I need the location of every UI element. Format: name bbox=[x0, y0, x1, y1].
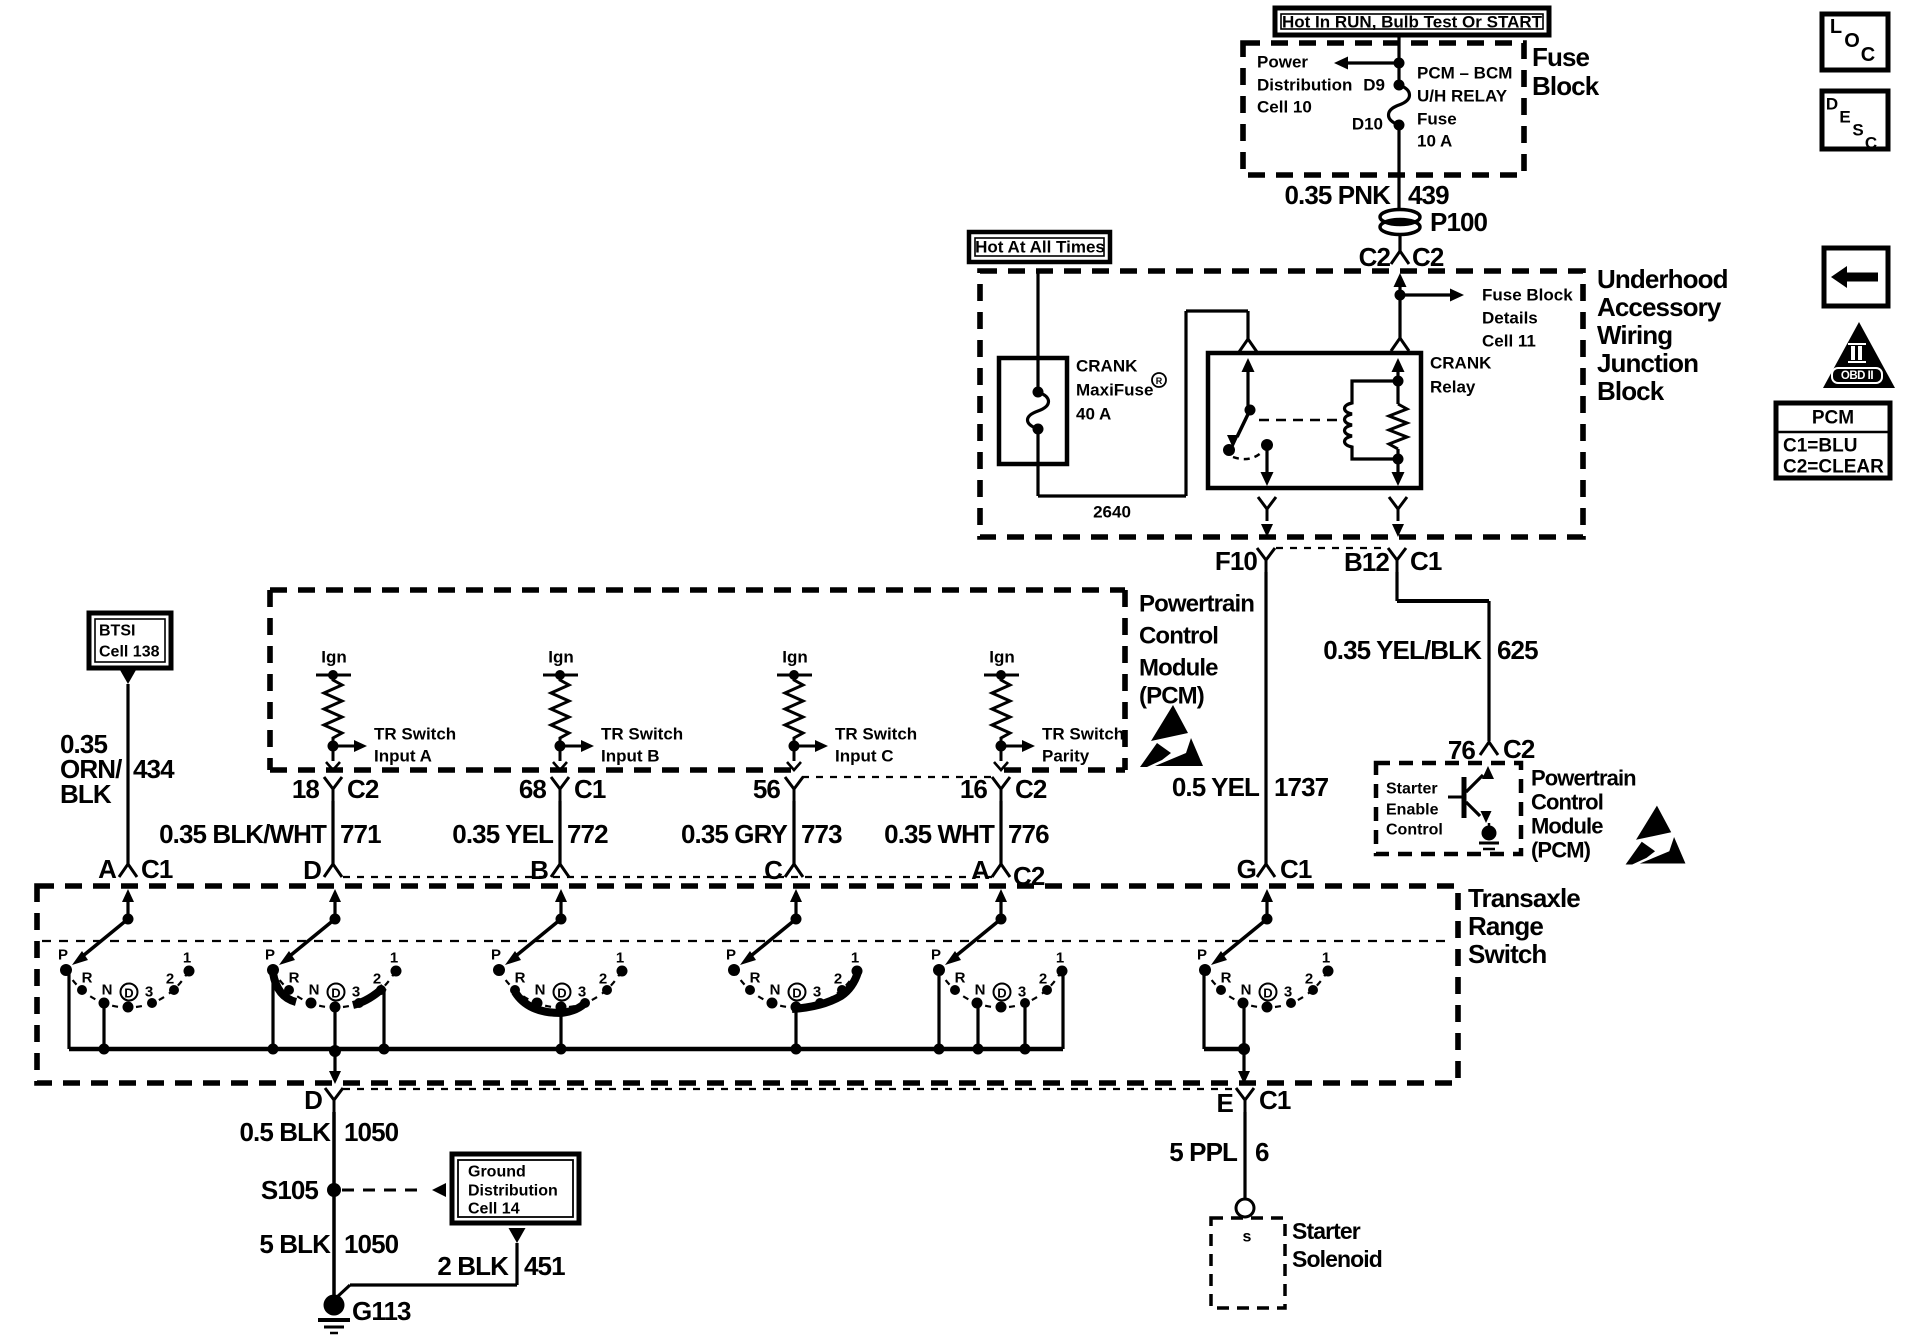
svg-text:2: 2 bbox=[834, 971, 842, 988]
svg-text:Details: Details bbox=[1482, 309, 1538, 328]
wire 776 0.35 WHT bbox=[999, 801, 1002, 864]
wire 772 0.35 YEL bbox=[558, 801, 561, 864]
switch S2 (input A) contact arc bbox=[273, 970, 396, 1008]
label Transaxle Range Switch bbox=[1468, 883, 1580, 969]
svg-text:Control: Control bbox=[1386, 822, 1443, 839]
svg-text:U/H RELAY: U/H RELAY bbox=[1417, 87, 1508, 106]
svg-text:0.35 GRY: 0.35 GRY bbox=[681, 819, 788, 849]
svg-text:P: P bbox=[265, 947, 275, 964]
svg-text:Ign: Ign bbox=[548, 648, 574, 667]
switch S3 (input B) position labels bbox=[491, 947, 624, 1001]
svg-text:1: 1 bbox=[1056, 950, 1064, 967]
svg-text:(PCM): (PCM) bbox=[1139, 683, 1204, 710]
svg-text:E: E bbox=[1839, 108, 1850, 127]
svg-text:0.35 PNK: 0.35 PNK bbox=[1284, 180, 1391, 210]
ESD symbol (PCM right) bbox=[1626, 806, 1686, 865]
title box "Hot At All Times" bbox=[969, 232, 1110, 262]
svg-text:Input A: Input A bbox=[374, 747, 432, 766]
starter solenoid dashed box bbox=[1211, 1218, 1285, 1308]
svg-text:Cell 10: Cell 10 bbox=[1257, 98, 1312, 117]
label 0.35 YEL 772 bbox=[452, 819, 608, 849]
switch S6 (starter) input arrow bbox=[1261, 889, 1273, 919]
switch S4 (input C) contact arc bbox=[734, 970, 857, 1008]
legend OBD II triangle bbox=[1823, 322, 1895, 388]
svg-text:Powertrain: Powertrain bbox=[1531, 766, 1636, 791]
svg-text:N: N bbox=[1241, 982, 1252, 999]
svg-text:B: B bbox=[530, 855, 548, 885]
node TR Switch B bbox=[555, 740, 595, 752]
svg-text:3: 3 bbox=[578, 984, 586, 1001]
legend back-arrow box bbox=[1824, 248, 1888, 306]
switch S1 (BTSI input) position labels bbox=[58, 947, 191, 1001]
svg-text:2: 2 bbox=[1305, 971, 1313, 988]
svg-text:CRANK: CRANK bbox=[1430, 354, 1492, 373]
wire 451 2 BLK bbox=[336, 1228, 526, 1298]
switch S2 (input A) closed contact P-R bbox=[273, 973, 296, 1002]
switch S2 (input A) wire P to bus bbox=[271, 970, 274, 1049]
connector line D-E (C1 face) bbox=[343, 1088, 1235, 1090]
svg-text:771: 771 bbox=[340, 819, 381, 849]
svg-text:BLK: BLK bbox=[60, 779, 112, 809]
terminal 76 C2 bbox=[1448, 734, 1535, 765]
svg-text:451: 451 bbox=[524, 1251, 565, 1281]
svg-text:L: L bbox=[1830, 16, 1842, 38]
wire 1737 YEL from PCM F10 bbox=[1264, 572, 1267, 864]
svg-text:G: G bbox=[1237, 854, 1256, 884]
svg-text:1: 1 bbox=[390, 950, 398, 967]
switch S5 (parity) contacts bbox=[933, 964, 1068, 1013]
label 0.35 YEL/BLK 625 bbox=[1323, 635, 1538, 665]
Ign pull-up rail bbox=[316, 648, 351, 681]
svg-text:2640: 2640 bbox=[1093, 503, 1131, 522]
switch S5 (parity) input arrow bbox=[995, 889, 1007, 919]
svg-text:D: D bbox=[1826, 95, 1838, 114]
resistor TR Switch B pull-up bbox=[551, 675, 569, 742]
label 5 PPL 6 bbox=[1169, 1137, 1269, 1167]
svg-text:0.35 WHT: 0.35 WHT bbox=[884, 819, 995, 849]
switch S6 (starter) wire P to bus bbox=[1202, 970, 1205, 1049]
svg-text:0.35 BLK/WHT: 0.35 BLK/WHT bbox=[159, 819, 327, 849]
switch S5 (parity) wire 1 to bus bbox=[1061, 971, 1064, 1049]
svg-text:D: D bbox=[124, 986, 133, 1001]
svg-text:Range: Range bbox=[1468, 911, 1543, 941]
svg-text:3: 3 bbox=[813, 984, 821, 1001]
svg-text:C2: C2 bbox=[1412, 242, 1444, 272]
svg-text:D: D bbox=[331, 986, 340, 1001]
wire 771 0.35 BLK/WHT bbox=[331, 801, 334, 864]
svg-text:A: A bbox=[971, 855, 990, 885]
node TR Switch C bbox=[789, 740, 829, 752]
svg-text:1: 1 bbox=[851, 950, 859, 967]
wire 625 YEL/BLK from B12 bbox=[1397, 572, 1489, 741]
wire 1050 BLK bbox=[332, 1112, 336, 1297]
svg-text:D: D bbox=[303, 855, 321, 885]
switch S2 (input A) closed contact 3-2 bbox=[353, 987, 384, 1005]
svg-text:BTSI: BTSI bbox=[99, 623, 135, 640]
svg-text:B12: B12 bbox=[1344, 547, 1389, 577]
svg-text:N: N bbox=[770, 982, 781, 999]
label Starter Solenoid bbox=[1292, 1218, 1382, 1272]
ESD symbol (PCM) bbox=[1140, 705, 1203, 767]
switch common bus bbox=[69, 1047, 1063, 1052]
label TR Switch Parity bbox=[1042, 725, 1124, 766]
label TR Switch Input C bbox=[835, 725, 917, 766]
svg-text:N: N bbox=[309, 982, 320, 999]
switch S4 (input C) arm bbox=[740, 914, 802, 966]
wire to PCM pin bbox=[326, 746, 340, 770]
svg-text:Ground: Ground bbox=[468, 1164, 526, 1181]
svg-text:s: s bbox=[1243, 1229, 1252, 1246]
wire to PCM pin bbox=[553, 746, 567, 770]
svg-text:76: 76 bbox=[1448, 735, 1476, 765]
svg-text:2: 2 bbox=[373, 971, 381, 988]
resistor TR Switch A pull-up bbox=[324, 675, 342, 742]
label 0.35 ORN/BLK 434 bbox=[60, 729, 175, 809]
svg-text:Distribution: Distribution bbox=[1257, 76, 1352, 95]
svg-text:E: E bbox=[1217, 1088, 1234, 1118]
terminal B12 C1 bbox=[1344, 546, 1442, 577]
svg-text:Fuse: Fuse bbox=[1532, 42, 1590, 72]
label CRANK Relay bbox=[1430, 354, 1492, 397]
terminal G C1 bbox=[1237, 854, 1312, 884]
switch S3 (input B) contacts bbox=[493, 964, 628, 1013]
svg-text:3: 3 bbox=[145, 984, 153, 1001]
svg-text:R: R bbox=[750, 970, 761, 987]
svg-text:TR Switch: TR Switch bbox=[374, 725, 456, 744]
relay output connectors bbox=[1258, 497, 1407, 537]
relay NC dashed arc bbox=[1233, 452, 1262, 459]
switch S6 (starter) contacts bbox=[1199, 964, 1334, 1013]
svg-text:Power: Power bbox=[1257, 53, 1308, 72]
switch S1 (BTSI input) contact arc bbox=[66, 970, 189, 1008]
svg-text:Fuse Block: Fuse Block bbox=[1482, 286, 1573, 305]
svg-text:Cell 138: Cell 138 bbox=[99, 644, 160, 661]
fuse block dashed box bbox=[1243, 43, 1524, 175]
svg-text:Starter: Starter bbox=[1386, 781, 1438, 798]
terminal A C1 bbox=[98, 854, 173, 884]
svg-text:6: 6 bbox=[1255, 1137, 1269, 1167]
label 0.35 PNK 439 bbox=[1284, 180, 1449, 210]
svg-text:434: 434 bbox=[133, 754, 175, 784]
svg-text:68: 68 bbox=[519, 774, 547, 804]
legend PCM connector colors box bbox=[1776, 403, 1890, 478]
label 0.35 GRY 773 bbox=[681, 819, 842, 849]
wire 773 0.35 GRY bbox=[792, 801, 795, 864]
svg-text:40 A: 40 A bbox=[1076, 405, 1111, 424]
svg-text:2: 2 bbox=[599, 971, 607, 988]
node E output bbox=[1238, 1043, 1250, 1084]
pin 56 bbox=[753, 774, 803, 804]
svg-text:Ign: Ign bbox=[321, 648, 347, 667]
switch S6 (starter) wire N to bus bbox=[1242, 1007, 1245, 1049]
svg-text:Wiring: Wiring bbox=[1597, 320, 1672, 350]
svg-text:Cell 14: Cell 14 bbox=[468, 1201, 520, 1218]
svg-text:D: D bbox=[997, 986, 1006, 1001]
switch S1 (BTSI input) wire P to bus bbox=[67, 970, 70, 1049]
pin D10 bbox=[1352, 115, 1383, 134]
svg-text:C2: C2 bbox=[1015, 774, 1047, 804]
connector line D-A (C2 face) bbox=[343, 876, 992, 878]
svg-text:C1: C1 bbox=[574, 774, 606, 804]
switch S2 (input A) arm bbox=[279, 914, 341, 966]
wire 6 PPL bbox=[1243, 1112, 1246, 1198]
switch S1 (BTSI input) contacts bbox=[60, 964, 195, 1013]
svg-text:3: 3 bbox=[1018, 984, 1026, 1001]
wire hot-at-all-times to maxifuse bbox=[1036, 271, 1039, 392]
node TR Switch A bbox=[328, 740, 368, 752]
switch S1 (BTSI input) wire N to bus bbox=[102, 1003, 105, 1049]
svg-text:C: C bbox=[1861, 44, 1875, 66]
svg-text:773: 773 bbox=[801, 819, 842, 849]
svg-text:D10: D10 bbox=[1352, 115, 1383, 134]
svg-text:Module: Module bbox=[1531, 814, 1603, 839]
svg-text:R: R bbox=[515, 970, 526, 987]
ground distribution cell 14 box bbox=[452, 1154, 579, 1223]
transistor Q starter enable bbox=[1448, 766, 1494, 826]
pin D9 bbox=[1363, 76, 1385, 95]
svg-text:P100: P100 bbox=[1430, 207, 1488, 237]
switch S4 (input C) closed contact D-1 bbox=[792, 972, 858, 1009]
svg-text:Starter: Starter bbox=[1292, 1218, 1361, 1244]
svg-text:10 A: 10 A bbox=[1417, 132, 1452, 151]
switch S6 (starter) arm bbox=[1211, 914, 1273, 966]
terminal D bbox=[303, 855, 342, 885]
svg-text:0.35 YEL: 0.35 YEL bbox=[452, 819, 554, 849]
svg-text:Ign: Ign bbox=[989, 648, 1015, 667]
relay coil bbox=[1345, 381, 1399, 459]
PCM dashed box bbox=[270, 590, 1125, 770]
svg-text:Enable: Enable bbox=[1386, 802, 1439, 819]
svg-text:N: N bbox=[102, 982, 113, 999]
svg-text:D: D bbox=[1263, 986, 1272, 1001]
switch S1 (BTSI input) arm bbox=[72, 914, 134, 966]
svg-text:Input B: Input B bbox=[601, 747, 660, 766]
BTSI Cell 138 box bbox=[89, 613, 171, 668]
svg-text:C1: C1 bbox=[1280, 854, 1312, 884]
svg-text:Fuse: Fuse bbox=[1417, 110, 1457, 129]
relay resistor bbox=[1389, 358, 1407, 486]
CRANK MaxiFuse 40A box bbox=[999, 358, 1067, 464]
Ign pull-up rail bbox=[984, 648, 1019, 681]
svg-text:C: C bbox=[764, 855, 783, 885]
svg-text:Block: Block bbox=[1532, 71, 1600, 101]
svg-text:G113: G113 bbox=[352, 1296, 411, 1326]
label 2 BLK 451 bbox=[437, 1251, 565, 1281]
Ign pull-up rail bbox=[543, 648, 578, 681]
switch S4 (input C) input arrow bbox=[790, 889, 802, 919]
connector C2/C2 bbox=[1359, 234, 1444, 272]
svg-text:C1: C1 bbox=[1410, 546, 1442, 576]
dashed reference wire to ground distribution bbox=[342, 1183, 446, 1197]
svg-text:R: R bbox=[955, 970, 966, 987]
relay common terminal bbox=[1261, 439, 1274, 486]
svg-text:Hot At All Times: Hot At All Times bbox=[975, 238, 1105, 257]
node: power distribution branch bbox=[1334, 57, 1405, 70]
svg-text:R: R bbox=[289, 970, 300, 987]
fuse element CRANK MaxiFuse bbox=[1028, 387, 1049, 435]
switch S4 (input C) contacts bbox=[728, 964, 863, 1013]
svg-text:Control: Control bbox=[1531, 790, 1603, 815]
switch S5 (parity) wire P to bus bbox=[937, 970, 940, 1049]
svg-text:Module: Module bbox=[1139, 655, 1218, 682]
terminal ring S bbox=[1236, 1199, 1254, 1217]
label 0.5 YEL 1737 bbox=[1172, 772, 1329, 802]
svg-text:PCM – BCM: PCM – BCM bbox=[1417, 64, 1512, 83]
svg-text:R: R bbox=[82, 970, 93, 987]
label 0.5 BLK 1050 bbox=[239, 1117, 398, 1147]
starter enable control dashed box bbox=[1376, 763, 1521, 854]
svg-text:Junction: Junction bbox=[1597, 348, 1698, 378]
fuse PCM-BCM U/H RELAY 10A (D9-D10) bbox=[1389, 80, 1410, 131]
svg-text:18: 18 bbox=[292, 774, 320, 804]
svg-text:2: 2 bbox=[1039, 971, 1047, 988]
svg-text:Relay: Relay bbox=[1430, 378, 1476, 397]
switch S2 (input A) input arrow bbox=[329, 889, 341, 919]
transistor emitter ground bbox=[1479, 826, 1499, 850]
grommet P100 bbox=[1380, 207, 1488, 237]
wire from title into fuse block bbox=[1397, 34, 1400, 85]
bus junction dots bbox=[99, 1044, 1031, 1055]
svg-text:S: S bbox=[1852, 121, 1863, 140]
svg-text:OBD II: OBD II bbox=[1841, 370, 1873, 382]
svg-text:R: R bbox=[1221, 970, 1232, 987]
svg-text:776: 776 bbox=[1008, 819, 1049, 849]
terminal F10 bbox=[1215, 546, 1275, 576]
label PCM-BCM U/H RELAY Fuse 10 A bbox=[1417, 64, 1512, 151]
svg-text:16: 16 bbox=[960, 774, 988, 804]
svg-text:(PCM): (PCM) bbox=[1531, 838, 1591, 863]
pin 18 C2 bbox=[292, 774, 379, 804]
svg-text:625: 625 bbox=[1497, 635, 1538, 665]
connector line F10/B12 bbox=[1276, 547, 1388, 549]
relay switch arm bbox=[1223, 358, 1256, 456]
label Powertrain Control Module (PCM) bbox=[1139, 591, 1254, 710]
svg-text:C1=BLU: C1=BLU bbox=[1783, 436, 1857, 457]
svg-text:C2: C2 bbox=[347, 774, 379, 804]
svg-text:1: 1 bbox=[1322, 950, 1330, 967]
legend LOC box bbox=[1822, 14, 1888, 70]
terminal C bbox=[764, 855, 803, 885]
switch S5 (parity) wire 3 to bus bbox=[1023, 1003, 1026, 1049]
svg-text:Solenoid: Solenoid bbox=[1292, 1246, 1382, 1272]
svg-text:S105: S105 bbox=[261, 1175, 319, 1205]
svg-text:D9: D9 bbox=[1363, 76, 1385, 95]
switch S5 (parity) position labels bbox=[931, 947, 1064, 1001]
label TR Switch Input A bbox=[374, 725, 456, 766]
svg-text:772: 772 bbox=[567, 819, 608, 849]
svg-text:N: N bbox=[535, 982, 546, 999]
label 5 BLK 1050 bbox=[259, 1229, 398, 1259]
label Powertrain Control Module (PCM) right bbox=[1531, 766, 1636, 863]
switch S3 (input B) contact arc bbox=[499, 970, 622, 1008]
svg-text:0.5 YEL: 0.5 YEL bbox=[1172, 772, 1260, 802]
svg-text:Powertrain: Powertrain bbox=[1139, 591, 1254, 618]
svg-text:Switch: Switch bbox=[1468, 939, 1546, 969]
label Starter Enable Control bbox=[1386, 781, 1443, 839]
svg-text:Block: Block bbox=[1597, 376, 1665, 406]
terminal E C1 bbox=[1217, 1085, 1291, 1118]
switch S3 (input B) closed contact R-3 bbox=[515, 992, 586, 1013]
svg-text:Hot In RUN, Bulb Test Or START: Hot In RUN, Bulb Test Or START bbox=[1282, 13, 1543, 32]
svg-text:P: P bbox=[931, 947, 941, 964]
switch S3 (input B) arm bbox=[505, 914, 567, 966]
relay actuation dashed link bbox=[1259, 419, 1344, 422]
node fuse block details branch bbox=[1395, 289, 1465, 302]
svg-text:Underhood: Underhood bbox=[1597, 264, 1728, 294]
svg-text:TR Switch: TR Switch bbox=[601, 725, 683, 744]
wire C2 into junction block bbox=[1394, 273, 1407, 338]
svg-text:3: 3 bbox=[352, 984, 360, 1001]
svg-text:P: P bbox=[1197, 947, 1207, 964]
svg-text:5 PPL: 5 PPL bbox=[1169, 1137, 1238, 1167]
svg-text:Ign: Ign bbox=[782, 648, 808, 667]
svg-text:A: A bbox=[98, 854, 117, 884]
label Underhood Accessory Wiring Junction Block bbox=[1597, 264, 1728, 406]
switch S2 (input A) position labels bbox=[265, 947, 398, 1001]
connector into relay (switch side) bbox=[1239, 339, 1257, 352]
svg-text:2: 2 bbox=[166, 971, 174, 988]
label Fuse Block Details Cell 11 bbox=[1482, 286, 1573, 351]
svg-text:0.35 YEL/BLK: 0.35 YEL/BLK bbox=[1323, 635, 1482, 665]
terminal B bbox=[530, 855, 569, 885]
label Power Distribution Cell 10 bbox=[1257, 53, 1352, 117]
connector into relay (coil side) bbox=[1391, 338, 1409, 351]
svg-text:0.5 BLK: 0.5 BLK bbox=[239, 1117, 331, 1147]
svg-text:P: P bbox=[726, 947, 736, 964]
label Fuse Block bbox=[1532, 42, 1600, 101]
svg-text:PCM: PCM bbox=[1812, 408, 1854, 429]
svg-text:1050: 1050 bbox=[344, 1117, 399, 1147]
transaxle range switch dashed box bbox=[37, 886, 1458, 1083]
wire to PCM pin bbox=[787, 746, 801, 770]
switch S3 (input B) input arrow bbox=[555, 889, 567, 919]
svg-text:5 BLK: 5 BLK bbox=[259, 1229, 331, 1259]
svg-text:1050: 1050 bbox=[344, 1229, 399, 1259]
wire 434 ORN/BLK from BTSI bbox=[120, 670, 136, 864]
svg-text:C: C bbox=[1865, 134, 1877, 153]
switch S1 (BTSI input) input arrow bbox=[122, 889, 134, 919]
svg-text:1: 1 bbox=[183, 950, 191, 967]
svg-text:TR Switch: TR Switch bbox=[1042, 725, 1124, 744]
svg-text:D: D bbox=[792, 986, 801, 1001]
svg-text:1: 1 bbox=[616, 950, 624, 967]
label 0.35 BLK/WHT 771 bbox=[159, 819, 381, 849]
svg-text:Parity: Parity bbox=[1042, 747, 1090, 766]
switch S6 (starter) position labels bbox=[1197, 947, 1330, 1001]
label TR Switch Input B bbox=[601, 725, 683, 766]
svg-text:P: P bbox=[491, 947, 501, 964]
svg-text:Accessory: Accessory bbox=[1597, 292, 1722, 322]
wire 2640 bbox=[1038, 311, 1248, 496]
svg-text:F10: F10 bbox=[1215, 546, 1258, 576]
CRANK relay box bbox=[1208, 353, 1421, 488]
label 0.35 WHT 776 bbox=[884, 819, 1049, 849]
svg-text:Cell 11: Cell 11 bbox=[1482, 332, 1536, 351]
svg-text:C2=CLEAR: C2=CLEAR bbox=[1783, 457, 1884, 478]
resistor TR Switch C pull-up bbox=[785, 675, 803, 742]
node D output bbox=[329, 1045, 341, 1084]
pin 68 C1 bbox=[519, 774, 606, 804]
switch S5 (parity) wire N to bus bbox=[976, 1003, 979, 1049]
switch S5 (parity) arm bbox=[945, 914, 1007, 966]
svg-text:C2: C2 bbox=[1359, 242, 1391, 272]
switch common dashed line bbox=[42, 940, 1453, 942]
svg-text:C1: C1 bbox=[1259, 1085, 1291, 1115]
wire to PCM pin bbox=[994, 746, 1008, 770]
svg-text:Control: Control bbox=[1139, 623, 1218, 650]
ground G113 bbox=[318, 1295, 411, 1334]
svg-text:2 BLK: 2 BLK bbox=[437, 1251, 509, 1281]
